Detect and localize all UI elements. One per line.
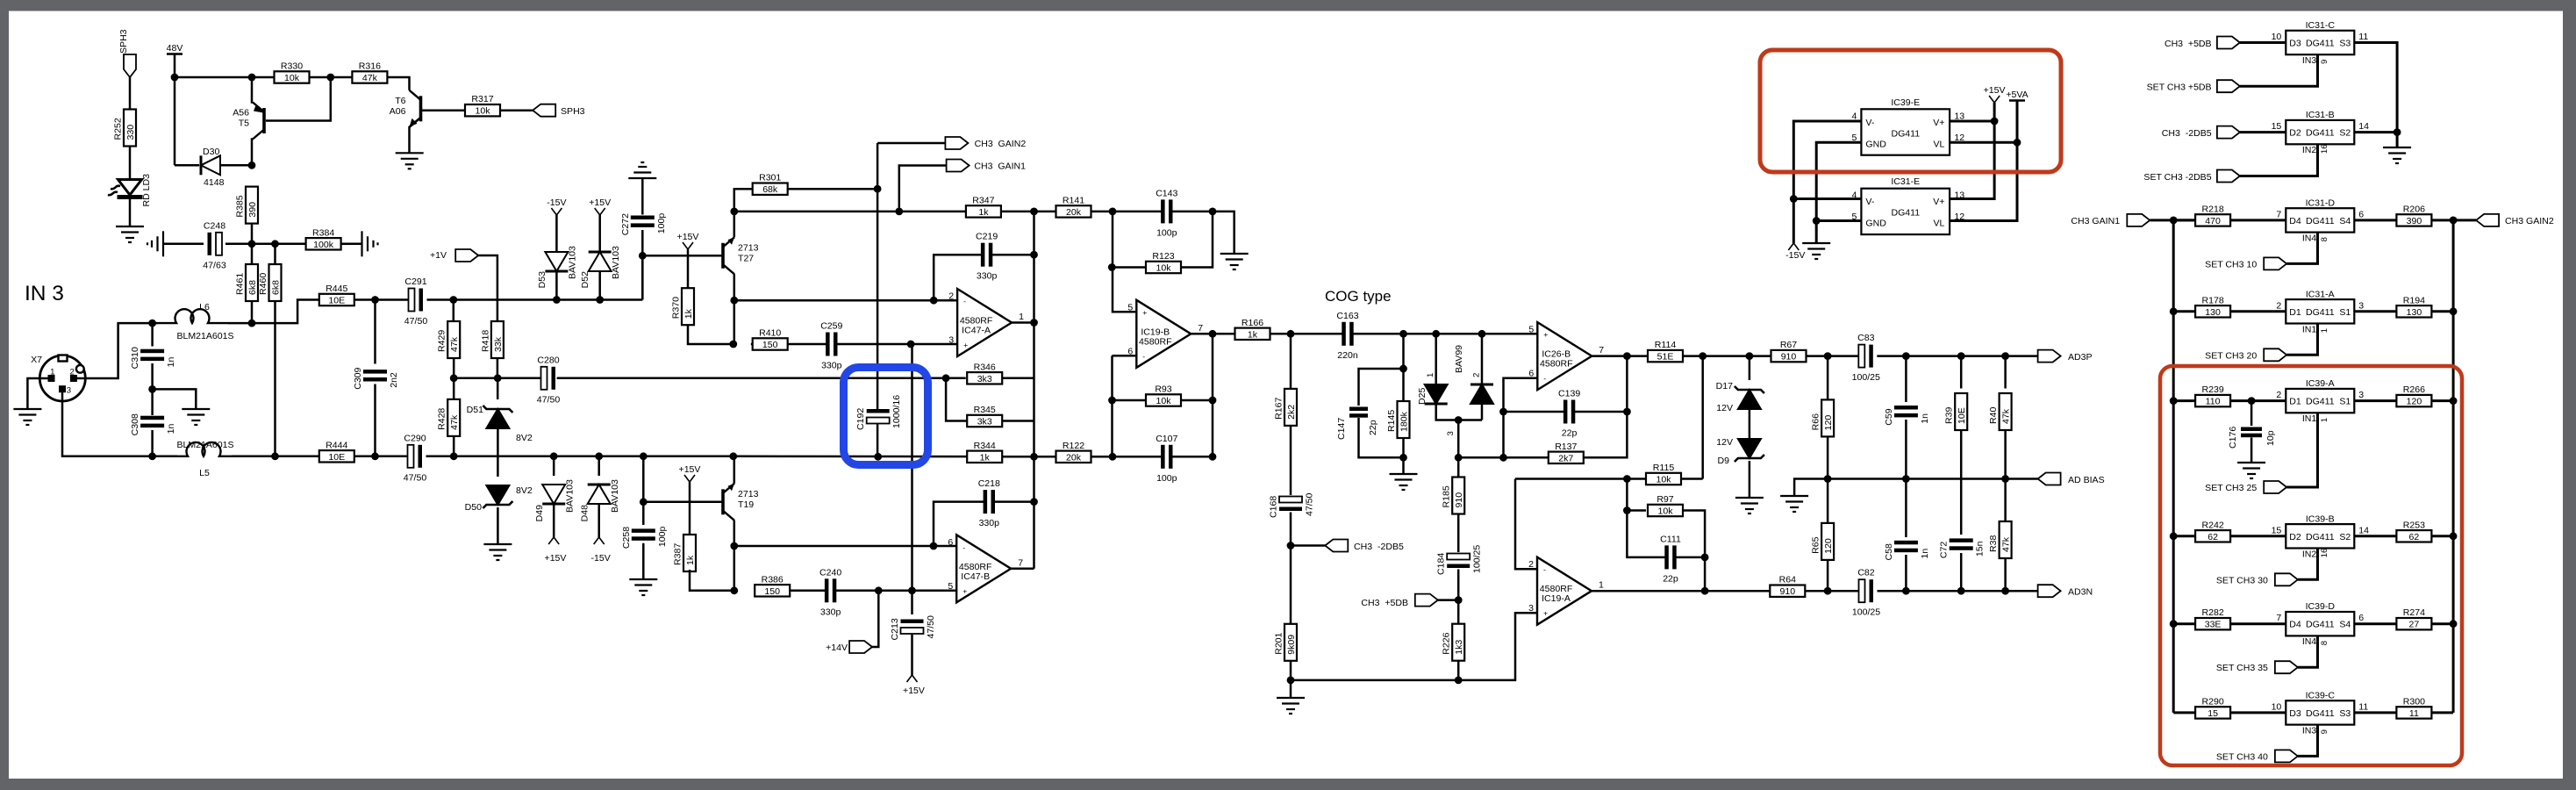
node C310 top bbox=[148, 320, 156, 327]
transistor T5 bbox=[233, 103, 264, 140]
power +15V (E block) bbox=[1984, 85, 2006, 103]
svg-text:-: - bbox=[1543, 565, 1546, 574]
svg-text:R194: R194 bbox=[2403, 295, 2425, 305]
wire bbox=[555, 271, 558, 300]
svg-text:IC31-E: IC31-E bbox=[1891, 176, 1920, 187]
svg-text:IC31-B: IC31-B bbox=[2306, 110, 2335, 120]
svg-text:R410: R410 bbox=[759, 328, 781, 339]
op-amp IC26-B bbox=[1528, 322, 1604, 390]
svg-text:SPH3: SPH3 bbox=[561, 106, 585, 117]
diode D25-2 bbox=[1470, 384, 1493, 404]
node pin2/C219 bbox=[930, 297, 938, 305]
svg-text:9: 9 bbox=[2320, 729, 2329, 734]
resistor R38 bbox=[1988, 521, 2012, 558]
svg-text:R347: R347 bbox=[972, 195, 994, 205]
blue highlight box (C192) bbox=[844, 368, 928, 465]
wire bbox=[62, 389, 177, 456]
wire bbox=[946, 378, 967, 421]
svg-text:2: 2 bbox=[2276, 300, 2281, 311]
svg-text:7: 7 bbox=[2276, 209, 2281, 219]
svg-text:10k: 10k bbox=[284, 73, 300, 83]
ground R201 bbox=[1277, 698, 1305, 714]
svg-text:20k: 20k bbox=[1066, 207, 1082, 218]
wire C213 to +15V bbox=[911, 635, 913, 675]
svg-text:C258: C258 bbox=[621, 527, 632, 549]
wire bbox=[641, 230, 644, 300]
capacitor C168 bbox=[1269, 492, 1315, 518]
svg-text:IN4: IN4 bbox=[2302, 636, 2317, 647]
node CH3 +5DB bbox=[1455, 596, 1463, 604]
wire bbox=[2354, 310, 2396, 312]
wire bbox=[2354, 535, 2396, 537]
svg-text:V+: V+ bbox=[1933, 197, 1944, 207]
svg-text:R429: R429 bbox=[437, 330, 447, 352]
node R66 top bbox=[1824, 352, 1832, 360]
resistor R370 bbox=[671, 288, 695, 325]
transistor T19 bbox=[723, 484, 759, 521]
wire bbox=[1002, 456, 1055, 458]
node T27 emitter line bbox=[730, 208, 738, 216]
node C72 bottom bbox=[1957, 587, 1965, 595]
analog switch IC39-C bbox=[2272, 690, 2369, 736]
svg-text:V+: V+ bbox=[1933, 118, 1944, 128]
wire R66 top bbox=[1827, 356, 1829, 400]
svg-text:1000/16: 1000/16 bbox=[891, 395, 902, 428]
svg-text:10: 10 bbox=[2272, 701, 2282, 712]
power -15V (E block) bbox=[1788, 243, 1799, 250]
wire bbox=[2354, 219, 2396, 221]
analog switch IC31-B bbox=[2272, 110, 2370, 155]
wire bbox=[2298, 725, 2318, 757]
wire bbox=[453, 358, 455, 378]
svg-text:47k: 47k bbox=[449, 336, 460, 352]
power -15V (D53) bbox=[547, 197, 566, 215]
svg-text:D49: D49 bbox=[534, 505, 545, 521]
wire bbox=[1191, 333, 1234, 335]
wire bbox=[1950, 103, 1994, 199]
wire bbox=[1171, 212, 1234, 254]
node R429 top bbox=[449, 296, 457, 304]
svg-text:C308: C308 bbox=[130, 413, 140, 435]
svg-text:2k2: 2k2 bbox=[1286, 405, 1297, 420]
svg-text:D1: D1 bbox=[2289, 307, 2301, 318]
wire C147 bottom bbox=[1359, 418, 1404, 457]
svg-text:+: + bbox=[1142, 308, 1147, 317]
svg-text:16: 16 bbox=[2320, 549, 2329, 558]
wire R167 top bbox=[1290, 334, 1292, 389]
wire bbox=[374, 300, 376, 364]
ground C258 bbox=[629, 579, 657, 595]
capacitor C272 bbox=[620, 213, 667, 236]
ground C176 bbox=[2237, 463, 2265, 478]
wire bbox=[1011, 568, 1034, 571]
node T19 collector / pin6 line bbox=[730, 542, 738, 550]
wire D53 anode bbox=[555, 215, 558, 252]
wire bbox=[2240, 131, 2286, 133]
svg-text:CH3 +5DB: CH3 +5DB bbox=[1361, 598, 1408, 608]
svg-text:D51: D51 bbox=[467, 405, 483, 415]
svg-text:1: 1 bbox=[2320, 418, 2329, 422]
node R141/C143 bbox=[1109, 208, 1117, 216]
wire bbox=[1091, 456, 1163, 458]
wire bbox=[788, 188, 877, 190]
wire bbox=[163, 243, 204, 246]
svg-text:2713: 2713 bbox=[738, 489, 759, 499]
connector CH3 GAIN1 bbox=[947, 160, 970, 172]
power +15V (C213) bbox=[907, 675, 918, 682]
wire bbox=[2354, 43, 2397, 148]
svg-text:7: 7 bbox=[1018, 557, 1023, 568]
svg-text:IC31-A: IC31-A bbox=[2306, 289, 2336, 299]
wire bbox=[2431, 535, 2453, 537]
capacitor C219 bbox=[976, 232, 998, 282]
wire T6 emitter bbox=[410, 118, 421, 154]
node GAIN1 branch bbox=[895, 208, 903, 216]
wire bbox=[453, 378, 455, 399]
svg-text:14: 14 bbox=[2358, 121, 2369, 132]
svg-text:BAV103: BAV103 bbox=[565, 479, 576, 513]
svg-text:100p: 100p bbox=[1156, 227, 1177, 238]
svg-text:COG type: COG type bbox=[1325, 288, 1392, 305]
svg-text:33E: 33E bbox=[2205, 620, 2222, 630]
wire bbox=[153, 389, 197, 409]
svg-text:D3: D3 bbox=[2289, 708, 2301, 719]
svg-text:R300: R300 bbox=[2403, 696, 2425, 707]
node R301/C192 column bbox=[874, 185, 882, 193]
resistor R115 bbox=[1646, 463, 1681, 485]
svg-text:R344: R344 bbox=[974, 441, 996, 451]
svg-text:-: - bbox=[1543, 374, 1546, 383]
wire bbox=[2431, 622, 2453, 625]
svg-text:+15V: +15V bbox=[679, 464, 701, 475]
svg-text:AD3N: AD3N bbox=[2068, 587, 2093, 598]
wire bbox=[1794, 479, 1828, 497]
svg-text:R242: R242 bbox=[2201, 520, 2223, 530]
resistor R141 bbox=[1056, 195, 1091, 218]
svg-text:100p: 100p bbox=[1156, 473, 1177, 484]
wire bbox=[129, 147, 132, 181]
svg-text:S1: S1 bbox=[2339, 397, 2351, 407]
svg-text:R282: R282 bbox=[2201, 607, 2223, 618]
wire D51 top bbox=[497, 378, 499, 399]
node R66/R65 bbox=[1824, 475, 1832, 483]
wire bbox=[1270, 333, 1344, 335]
svg-text:1k: 1k bbox=[978, 207, 989, 218]
wire bbox=[175, 164, 199, 167]
svg-text:7: 7 bbox=[1198, 323, 1203, 334]
svg-text:10k: 10k bbox=[1156, 396, 1171, 406]
svg-text:IC47-A: IC47-A bbox=[962, 326, 991, 336]
svg-text:5: 5 bbox=[948, 581, 953, 592]
svg-text:180k: 180k bbox=[1399, 411, 1410, 432]
svg-text:6k8: 6k8 bbox=[247, 280, 258, 295]
svg-text:330p: 330p bbox=[977, 271, 998, 282]
svg-text:-: - bbox=[962, 542, 965, 551]
svg-text:8V2: 8V2 bbox=[516, 433, 533, 443]
wire bbox=[1816, 142, 1861, 243]
node C139 left bbox=[1499, 408, 1507, 416]
svg-text:R185: R185 bbox=[1442, 485, 1452, 507]
wire C147 top bbox=[1359, 369, 1404, 406]
node left rail r282 bbox=[2170, 620, 2178, 628]
svg-text:R428: R428 bbox=[437, 408, 447, 430]
svg-text:130: 130 bbox=[2407, 307, 2422, 318]
connector SET CH3 10 bbox=[2264, 257, 2286, 269]
svg-text:C248: C248 bbox=[204, 220, 225, 231]
svg-text:D50: D50 bbox=[465, 502, 482, 513]
svg-text:SET CH3 25: SET CH3 25 bbox=[2205, 483, 2257, 493]
node R330/R316 junction bbox=[326, 74, 334, 82]
svg-text:330p: 330p bbox=[820, 607, 841, 617]
svg-text:15: 15 bbox=[2272, 525, 2282, 535]
wire bbox=[1681, 478, 1703, 480]
svg-text:CH3 +5DB: CH3 +5DB bbox=[2165, 39, 2212, 49]
node R39 top bbox=[1957, 352, 1965, 360]
connector SET CH3 35 bbox=[2275, 661, 2298, 673]
wire bbox=[2150, 219, 2195, 221]
svg-text:10E: 10E bbox=[328, 452, 345, 463]
node V- rail bbox=[1790, 195, 1798, 203]
svg-text:DG411: DG411 bbox=[2306, 307, 2335, 318]
node R418/D51 bbox=[494, 374, 502, 382]
wire bbox=[1113, 212, 1135, 312]
svg-text:R178: R178 bbox=[2201, 295, 2223, 305]
wire T5 emitter bbox=[252, 77, 253, 103]
svg-text:6: 6 bbox=[1528, 369, 1534, 379]
connector +1V bbox=[455, 249, 478, 262]
ground D50 bbox=[483, 544, 512, 560]
wire D51-D50 bbox=[497, 428, 499, 477]
svg-text:R145: R145 bbox=[1386, 410, 1397, 432]
wire bbox=[2286, 233, 2317, 264]
node C213 top bbox=[908, 586, 916, 594]
red highlight box 1 (IC39-E) bbox=[1760, 50, 2061, 172]
svg-text:+15V: +15V bbox=[545, 553, 567, 564]
wire bbox=[1960, 430, 1963, 535]
node L6/R461 bbox=[248, 320, 256, 327]
svg-text:R290: R290 bbox=[2201, 696, 2223, 707]
ground C143 bbox=[1220, 254, 1249, 269]
svg-text:C280: C280 bbox=[537, 355, 559, 365]
wire bbox=[2230, 535, 2286, 537]
wire bbox=[1515, 479, 1537, 570]
wire bbox=[2230, 399, 2286, 402]
svg-text:15n: 15n bbox=[1975, 541, 1986, 557]
diode D49 bbox=[542, 485, 565, 504]
resistor R65 bbox=[1811, 523, 1835, 560]
wire bbox=[1457, 661, 1460, 680]
resistor R239 bbox=[2195, 384, 2230, 407]
wire bbox=[899, 166, 947, 212]
wire bbox=[1950, 120, 1994, 123]
svg-text:+15V: +15V bbox=[589, 197, 611, 208]
svg-text:150: 150 bbox=[764, 586, 780, 597]
svg-text:L6: L6 bbox=[199, 302, 210, 312]
wire bbox=[251, 244, 254, 264]
node output/C111 bbox=[1701, 587, 1709, 595]
wire bbox=[2173, 310, 2195, 312]
wire bbox=[2452, 220, 2455, 713]
svg-text:IN3: IN3 bbox=[2302, 55, 2317, 66]
ground above C272 bbox=[628, 162, 656, 178]
connector SET CH3 40 bbox=[2275, 750, 2298, 762]
wire D25 to R185 bbox=[1457, 420, 1460, 478]
svg-text:22p: 22p bbox=[1562, 428, 1578, 439]
connector AD BIAS bbox=[2038, 473, 2061, 485]
wire R39 top bbox=[1960, 356, 1963, 389]
wire bbox=[129, 77, 132, 110]
wire bbox=[1091, 211, 1163, 213]
wire bbox=[1960, 553, 1963, 591]
wire bbox=[74, 323, 158, 378]
svg-text:CH3 GAIN2: CH3 GAIN2 bbox=[975, 139, 1027, 149]
svg-text:9k09: 9k09 bbox=[1286, 635, 1297, 655]
capacitor C291 bbox=[404, 276, 428, 327]
svg-text:GND: GND bbox=[1865, 139, 1886, 149]
resistor R40 bbox=[1988, 393, 2012, 430]
svg-text:R385: R385 bbox=[235, 195, 246, 217]
svg-text:-: - bbox=[963, 297, 966, 305]
wire C176 bottom bbox=[2250, 438, 2253, 463]
connector SPH3 out bbox=[533, 104, 555, 117]
svg-text:C143: C143 bbox=[1156, 188, 1177, 198]
svg-text:R460: R460 bbox=[258, 273, 268, 295]
svg-text:DG411: DG411 bbox=[2306, 708, 2335, 719]
svg-text:10k: 10k bbox=[475, 106, 490, 117]
svg-text:R266: R266 bbox=[2403, 384, 2425, 395]
resistor R64 bbox=[1770, 575, 1805, 598]
svg-text:DG411: DG411 bbox=[1891, 128, 1920, 139]
svg-text:150: 150 bbox=[762, 340, 778, 350]
svg-text:390: 390 bbox=[2407, 216, 2422, 226]
node C240/+14V bbox=[875, 586, 883, 594]
wire bbox=[2173, 399, 2195, 402]
svg-text:120: 120 bbox=[1823, 415, 1834, 431]
svg-text:R122: R122 bbox=[1063, 441, 1084, 451]
wire +14V bbox=[872, 591, 878, 647]
wire C111 to output bbox=[1704, 557, 1707, 591]
svg-text:910: 910 bbox=[1779, 586, 1795, 597]
wire bbox=[734, 299, 956, 302]
node left rail r242 bbox=[2170, 532, 2178, 540]
resistor R166 bbox=[1235, 318, 1270, 341]
svg-text:R137: R137 bbox=[1555, 442, 1577, 452]
wire bbox=[836, 343, 957, 346]
node right rail r266 bbox=[2450, 397, 2458, 405]
svg-text:C59: C59 bbox=[1884, 408, 1894, 425]
node C143/R123 right bbox=[1209, 208, 1217, 216]
svg-text:120: 120 bbox=[1823, 538, 1834, 554]
svg-text:12V: 12V bbox=[1716, 437, 1733, 448]
capacitor C83 bbox=[1852, 333, 1880, 383]
svg-text:100/25: 100/25 bbox=[1472, 545, 1483, 573]
svg-text:+15V: +15V bbox=[677, 232, 699, 242]
wire bbox=[1504, 378, 1538, 458]
wire D17 cathode bbox=[1749, 356, 1751, 380]
svg-text:8V2: 8V2 bbox=[516, 485, 533, 496]
wire bbox=[733, 456, 968, 458]
svg-text:10k: 10k bbox=[1657, 506, 1673, 517]
svg-text:R167: R167 bbox=[1274, 398, 1284, 420]
node R93 right bbox=[1209, 397, 1217, 405]
svg-text:DG411: DG411 bbox=[2306, 128, 2335, 139]
node R65 bottom bbox=[1824, 587, 1832, 595]
svg-text:C272: C272 bbox=[620, 213, 631, 235]
wire T6 base bbox=[422, 109, 465, 111]
wire bbox=[643, 456, 721, 502]
svg-text:X7: X7 bbox=[31, 355, 42, 365]
resistor R461 bbox=[235, 264, 259, 301]
wire R123 right bbox=[1181, 212, 1213, 268]
resistor R114 bbox=[1648, 340, 1683, 363]
node pin6/C218 bbox=[930, 542, 938, 550]
svg-text:3k3: 3k3 bbox=[977, 374, 992, 384]
svg-text:SET CH3 +5DB: SET CH3 +5DB bbox=[2147, 83, 2212, 93]
node R185 top bbox=[1455, 454, 1463, 462]
svg-text:D30: D30 bbox=[203, 147, 219, 157]
node right rail r274 bbox=[2450, 620, 2458, 628]
power +15V (R387) bbox=[679, 464, 701, 482]
wire bbox=[1793, 197, 1861, 200]
svg-text:15: 15 bbox=[2207, 708, 2218, 719]
wire D9 to ground bbox=[1749, 461, 1751, 498]
resistor R39 bbox=[1944, 393, 1968, 430]
wire bbox=[387, 77, 409, 90]
wire bbox=[1701, 356, 1704, 479]
node IC26-B pin7 bbox=[1623, 352, 1631, 360]
connector CH3 GAIN1 in bbox=[2127, 214, 2150, 226]
wire bbox=[1504, 411, 1565, 413]
wire C58 top bbox=[1905, 479, 1907, 538]
wire bbox=[1683, 355, 1771, 357]
svg-text:6: 6 bbox=[2358, 613, 2364, 623]
diode D50 bbox=[483, 485, 512, 508]
svg-text:SET CH3 -2DB5: SET CH3 -2DB5 bbox=[2143, 172, 2211, 183]
wire bbox=[934, 502, 984, 546]
svg-text:R387: R387 bbox=[673, 543, 683, 565]
svg-text:-15V: -15V bbox=[591, 553, 611, 564]
wire bbox=[1573, 411, 1627, 413]
wire bbox=[374, 384, 376, 456]
wire bbox=[2004, 430, 2007, 521]
wire bbox=[220, 164, 252, 167]
svg-text:1: 1 bbox=[1599, 580, 1604, 591]
inductor L5 bbox=[176, 440, 233, 478]
svg-text:C111: C111 bbox=[1660, 534, 1681, 544]
svg-text:R253: R253 bbox=[2403, 520, 2425, 530]
node C272/T27 base line bbox=[639, 252, 647, 260]
svg-text:10p: 10p bbox=[2265, 430, 2276, 446]
wire bbox=[597, 504, 600, 537]
svg-text:R39: R39 bbox=[1944, 407, 1955, 424]
node C309 top bbox=[371, 296, 379, 304]
svg-text:120: 120 bbox=[2407, 397, 2422, 407]
wire bbox=[1012, 321, 1034, 324]
svg-text:1: 1 bbox=[1426, 373, 1435, 377]
connector X7 bbox=[31, 355, 85, 401]
resistor R206 bbox=[2396, 204, 2431, 226]
svg-text:S2: S2 bbox=[2339, 532, 2351, 542]
svg-text:390: 390 bbox=[247, 202, 258, 218]
wire bbox=[151, 430, 154, 456]
wire bbox=[310, 76, 353, 79]
wire pin3 column bbox=[911, 344, 912, 614]
wire pin6 column bbox=[1111, 355, 1113, 456]
svg-text:R317: R317 bbox=[471, 94, 493, 104]
node R114/R115 bbox=[1699, 352, 1707, 360]
svg-text:S3: S3 bbox=[2339, 39, 2351, 49]
svg-text:7: 7 bbox=[1599, 345, 1604, 355]
